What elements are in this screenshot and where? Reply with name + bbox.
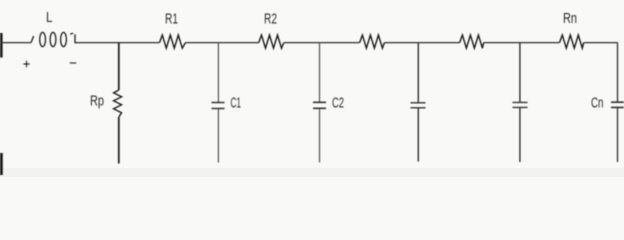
- inductor L: [31, 32, 77, 46]
- node: junction C1: [217, 43, 219, 102]
- resistor (unlabeled, third): [360, 35, 385, 48]
- capacitor (unlabeled, third): [411, 103, 426, 108]
- wire R2 to R3: [284, 42, 360, 44]
- resistor Rn: [560, 35, 584, 48]
- wire R1 to R2: [186, 42, 259, 44]
- svg-text:L: L: [46, 10, 53, 26]
- wire lower lead fourth capacitor: [519, 107, 521, 162]
- wire Rp lower lead: [118, 117, 120, 164]
- wire C1 lower lead: [217, 109, 219, 163]
- svg-text:Cn: Cn: [591, 96, 604, 112]
- node: junction capacitor 4 (unlabeled): [519, 43, 521, 102]
- node: junction C2: [319, 43, 321, 102]
- wire inductor to R1: [75, 42, 159, 44]
- minus terminal: [70, 62, 76, 64]
- svg-text:R1: R1: [165, 12, 178, 28]
- left page-edge mark lower: [0, 153, 3, 175]
- capacitor Cn: [611, 102, 624, 107]
- capacitor (unlabeled, fourth): [513, 102, 528, 107]
- resistor Rp (shunt): [114, 90, 122, 117]
- wire Rn to output corner: [584, 42, 618, 44]
- svg-text:Rn: Rn: [563, 11, 577, 27]
- node: junction capacitor 3 (unlabeled): [417, 43, 419, 103]
- wire R4 to Rn: [484, 42, 560, 44]
- plus terminal: [23, 61, 29, 67]
- svg-text:C1: C1: [231, 96, 242, 112]
- wire C2 lower lead: [319, 108, 321, 162]
- svg-text:Rp: Rp: [90, 94, 104, 110]
- wire input from left edge: [0, 42, 31, 44]
- resistor R1: [160, 35, 186, 48]
- svg-text:R2: R2: [264, 12, 277, 28]
- left page-edge mark upper: [0, 33, 3, 58]
- wire lower lead third capacitor: [417, 108, 419, 162]
- capacitor C2: [313, 102, 326, 108]
- node: junction Rp: [118, 43, 120, 90]
- wire output corner down: [617, 43, 619, 102]
- capacitor C1: [212, 103, 225, 109]
- svg-text:C2: C2: [332, 96, 344, 112]
- resistor R2: [259, 35, 284, 48]
- wire R3 to R4: [384, 42, 459, 44]
- resistor (unlabeled, fourth): [460, 35, 484, 48]
- wire Cn lower lead: [617, 107, 619, 162]
